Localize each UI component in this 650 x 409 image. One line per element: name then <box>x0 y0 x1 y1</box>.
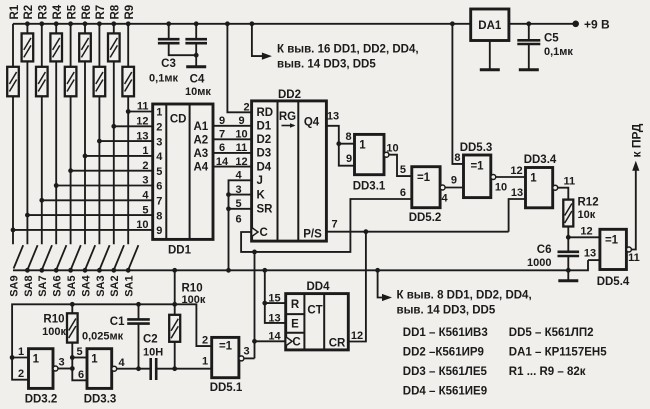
svg-text:DA1 – КР1157ЕН5: DA1 – КР1157ЕН5 <box>509 347 607 359</box>
svg-text:5: 5 <box>142 204 148 216</box>
junction: matrix row 9 <box>11 228 16 233</box>
ground below C5 <box>528 44 530 70</box>
wire: DD2 P/S (7) along y=231.7 <box>326 231 508 233</box>
svg-text:SA9: SA9 <box>8 275 20 296</box>
svg-text:Q4: Q4 <box>304 117 320 129</box>
IC DD1 (CD encoder) <box>153 104 213 239</box>
svg-text:1: 1 <box>18 346 24 358</box>
svg-text:3: 3 <box>243 346 249 358</box>
junction: rail / R3 <box>39 21 44 26</box>
svg-text:4: 4 <box>235 170 242 182</box>
switch SA2 <box>114 245 124 268</box>
junction: clock net / DD5.1 riser <box>252 250 257 255</box>
gate DD3.2 <box>29 349 54 389</box>
svg-text:DD2: DD2 <box>278 89 301 101</box>
wire: +9V top rail <box>13 23 471 25</box>
svg-text:10: 10 <box>136 219 148 231</box>
svg-text:5: 5 <box>400 164 406 176</box>
switch SA6 <box>57 245 67 268</box>
wire: DD3.3 out (4) to C2 <box>117 368 151 370</box>
svg-text:12: 12 <box>580 225 592 237</box>
svg-text:R3: R3 <box>38 5 50 20</box>
wire: matrix row to DD1 pin row 3 <box>99 140 152 142</box>
wire: matrix row to DD1 pin row 2 <box>114 125 153 127</box>
svg-text:5: 5 <box>235 198 241 210</box>
svg-text:D3: D3 <box>257 148 272 160</box>
junction: rail / annotation 1 <box>250 21 255 26</box>
svg-text:CD: CD <box>170 114 187 126</box>
wire: DD5.3 out (10) to DD3.4 pin 12 <box>496 176 526 178</box>
svg-text:R10: R10 <box>43 314 64 326</box>
junction: matrix row 5 <box>68 168 73 173</box>
svg-text:A2: A2 <box>193 134 208 146</box>
svg-text:0,025мк: 0,025мк <box>82 331 124 343</box>
junction: rail / RD drop <box>225 21 230 26</box>
svg-text:E: E <box>291 318 299 330</box>
capacitor C6 <box>558 237 580 270</box>
svg-text:DD5.1: DD5.1 <box>210 382 243 394</box>
junction: bus / SA1 <box>126 268 131 273</box>
wire: matrix row to DD1 pin row 5 <box>71 170 153 172</box>
junction: DD4 R/E tie <box>262 301 267 306</box>
svg-text:DD4: DD4 <box>306 281 330 293</box>
svg-text:7: 7 <box>156 196 162 208</box>
terminal +9 В <box>572 21 579 28</box>
junction: matrix row 3 <box>97 139 102 144</box>
capacitor C4 <box>185 24 207 55</box>
junction: J/K chain at SR <box>226 206 231 211</box>
DD5.2 output bubble <box>440 185 445 190</box>
svg-text:12: 12 <box>510 165 522 177</box>
junction: bus / SA3 <box>97 268 102 273</box>
svg-text:C1: C1 <box>110 316 125 328</box>
svg-text:R9: R9 <box>124 5 136 20</box>
svg-text:=1: =1 <box>219 340 233 352</box>
junction: rail / DD5.3 pin 8 drop <box>450 21 455 26</box>
junction: node A / R10 <box>70 302 75 307</box>
junction: bus / DD4 R,E riser <box>262 268 267 273</box>
svg-text:6: 6 <box>235 214 241 226</box>
svg-text:11: 11 <box>137 101 149 113</box>
wire: bus riser to DD5.4 pin 13 <box>588 259 600 261</box>
DD3.2 output bubble <box>53 366 58 371</box>
resistor R7 <box>94 24 106 245</box>
svg-text:C4: C4 <box>190 74 205 86</box>
gate DD3.4 <box>526 168 553 208</box>
switch SA5 <box>71 245 81 268</box>
wire: common bus from switches <box>13 260 588 270</box>
junction: bus / annotation 2 <box>375 268 380 273</box>
junction: rail / R9 <box>126 21 131 26</box>
svg-text:R5: R5 <box>66 4 78 19</box>
svg-text:R1 ... R9 – 82к: R1 ... R9 – 82к <box>509 366 586 378</box>
svg-text:9: 9 <box>238 115 244 127</box>
svg-text:DD5.4: DD5.4 <box>597 276 630 288</box>
junction: rail / R6 <box>83 21 88 26</box>
junction: node B at pin 5 <box>70 355 75 360</box>
junction: J/K chain at bus <box>226 268 231 273</box>
svg-text:0,1мк: 0,1мк <box>544 46 573 58</box>
svg-text:A4: A4 <box>193 162 208 174</box>
svg-text:3: 3 <box>235 184 241 196</box>
wire: P/S net riser to DD3.4 pin 13 <box>509 199 526 232</box>
svg-text:0,1мк: 0,1мк <box>149 73 178 85</box>
svg-text:DD5.3: DD5.3 <box>460 142 493 154</box>
junction: matrix row 7 <box>39 198 44 203</box>
svg-text:11: 11 <box>236 142 248 154</box>
junction: P/S / DD4 CR riser <box>364 229 369 234</box>
gate DD3.1 (NOR as inverter) <box>355 134 385 174</box>
wire: bus to annotation arrow (к выв. 8) <box>378 270 392 301</box>
junction: rail / R8 <box>111 21 116 26</box>
svg-text:1: 1 <box>202 356 208 368</box>
svg-text:C3: C3 <box>161 58 176 70</box>
junction: clock net / DD4 C <box>252 339 257 344</box>
svg-text:4: 4 <box>142 190 149 202</box>
svg-text:A3: A3 <box>193 148 208 160</box>
junction: DA1 out / C5 <box>526 21 531 26</box>
junction: bus / SA6 <box>54 268 59 273</box>
wire: DD1 A2 to DD2 D2 <box>213 138 252 140</box>
resistor R6 <box>79 24 91 245</box>
junction: C3/C4 common <box>194 53 199 58</box>
wire: matrix row to DD1 pin row 8 <box>27 214 152 216</box>
IC DD2 (RG register) <box>252 101 327 241</box>
DD3.4 output bubble <box>553 185 558 190</box>
wire: DD5.1 out (3) to clock net riser <box>244 357 255 359</box>
svg-text:SA6: SA6 <box>52 275 64 296</box>
svg-text:11: 11 <box>564 176 576 188</box>
wire: DD5.4 out (11) to к ПРД <box>631 161 639 250</box>
wire: DD5.1 out riser <box>254 252 256 359</box>
svg-text:RD: RD <box>257 107 274 119</box>
svg-text:6: 6 <box>156 181 162 193</box>
svg-text:D2: D2 <box>257 134 272 146</box>
svg-text:2: 2 <box>142 160 148 172</box>
switch SA7 <box>42 245 52 268</box>
svg-text:13: 13 <box>136 130 148 142</box>
wire: bus to oscillator node <box>174 270 176 304</box>
wire: matrix row to DD1 pin row 4 <box>85 155 153 157</box>
junction: R12 / C6 / DD5.4 pin 12 <box>566 235 571 240</box>
svg-text:DD4 – К561ИЕ9: DD4 – К561ИЕ9 <box>403 385 487 397</box>
svg-text:DD1 – К561ИВ3: DD1 – К561ИВ3 <box>403 327 488 339</box>
switch SA1 <box>129 245 139 268</box>
svg-text:DD3.1: DD3.1 <box>353 181 386 193</box>
svg-text:R: R <box>291 299 300 311</box>
svg-text:4: 4 <box>441 193 448 205</box>
svg-text:SR: SR <box>257 204 274 216</box>
svg-text:11: 11 <box>628 252 640 264</box>
capacitor C3 <box>158 24 196 55</box>
junction: bus / SA5 <box>68 268 73 273</box>
junction: J/K chain at K <box>226 192 231 197</box>
switch SA4 <box>86 245 96 268</box>
gate DD3.3 <box>87 349 112 389</box>
gate DD5.1 (XOR) <box>212 337 239 377</box>
svg-text:1: 1 <box>33 354 40 366</box>
svg-text:D1: D1 <box>257 121 272 133</box>
svg-text:C6: C6 <box>537 244 552 256</box>
svg-text:2: 2 <box>202 335 208 347</box>
svg-text:10Н: 10Н <box>143 347 163 359</box>
svg-text:6: 6 <box>400 187 406 199</box>
DD4 clock input triangle pin C <box>286 337 292 346</box>
svg-text:9: 9 <box>451 175 457 187</box>
svg-text:DD3.4: DD3.4 <box>524 154 557 166</box>
switch SA9 <box>14 245 24 268</box>
junction: node A / DD3.2 pin 1 <box>10 355 15 360</box>
resistor R2 <box>22 24 34 245</box>
wire: clock net to DD4 pin 14 <box>255 340 286 342</box>
svg-text:15: 15 <box>268 293 280 305</box>
svg-text:2: 2 <box>156 122 162 134</box>
svg-text:9: 9 <box>156 225 162 237</box>
svg-text:10: 10 <box>495 182 507 194</box>
wire: oscillator node A (top wire) <box>12 304 212 357</box>
resistor R12 <box>563 200 573 238</box>
junction: bus / SA4 <box>83 268 88 273</box>
svg-text:К выв. 16 DD1, DD2, DD4,: К выв. 16 DD1, DD2, DD4, <box>277 43 419 55</box>
svg-text:R7: R7 <box>95 5 107 20</box>
svg-text:R4: R4 <box>52 4 64 19</box>
junction: matrix row 1 <box>126 109 131 114</box>
junction: DD3.1 pins 8/9 tie <box>336 141 341 146</box>
junction: rail / R2 <box>25 21 30 26</box>
DD3.1 output bubble <box>384 152 389 157</box>
junction: C1 / DD3.3 out <box>136 366 141 371</box>
svg-text:1: 1 <box>156 107 162 119</box>
junction: rail / R5 <box>68 21 73 26</box>
svg-text:10: 10 <box>386 143 398 155</box>
svg-text:1: 1 <box>142 145 148 157</box>
capacitor C2 (series) <box>151 358 212 380</box>
resistor R8 <box>108 24 120 245</box>
wire: matrix row to DD1 pin row 9 <box>13 229 153 231</box>
wire: DD2 Q4 (pin 13) to DD3.1 pins 8,9 <box>326 126 354 166</box>
svg-text:J: J <box>257 175 263 187</box>
svg-text:3: 3 <box>156 136 162 148</box>
svg-text:R1: R1 <box>9 4 21 19</box>
svg-text:1: 1 <box>530 173 537 185</box>
svg-text:10: 10 <box>235 129 247 141</box>
svg-text:3: 3 <box>142 175 148 187</box>
resistor R9 <box>122 24 134 245</box>
ground below DA1 <box>489 41 491 70</box>
wire: DD3.2 out (3) to DD3.3 pins 5,6 <box>58 358 87 381</box>
svg-text:C: C <box>292 337 300 349</box>
svg-text:1000: 1000 <box>527 257 551 269</box>
svg-text:=1: =1 <box>605 234 619 246</box>
resistor R1 <box>7 24 19 245</box>
svg-text:14: 14 <box>216 156 229 168</box>
resistor R5 <box>65 24 77 245</box>
svg-text:1: 1 <box>91 354 98 366</box>
wire: rail from DA1 output to +9V terminal <box>509 23 576 25</box>
junction: rail / R7 <box>97 21 102 26</box>
wire: matrix row to DD1 pin row 6 <box>56 185 153 187</box>
wire: DD1 A4 to DD2 D4 <box>213 166 252 168</box>
svg-text:D4: D4 <box>257 161 272 173</box>
svg-text:12: 12 <box>351 330 363 342</box>
ground below bus at C6 <box>567 270 569 281</box>
svg-text:к ПРД: к ПРД <box>630 123 644 157</box>
svg-text:SA7: SA7 <box>37 275 49 296</box>
svg-text:14: 14 <box>268 331 281 343</box>
svg-text:выв. 14 DD3, DD5: выв. 14 DD3, DD5 <box>277 59 376 71</box>
svg-text:100к: 100к <box>42 326 66 338</box>
junction: matrix row 6 <box>54 183 59 188</box>
wire: DD4 CR (12) riser <box>348 232 366 342</box>
wire: matrix row to DD1 pin row 7 <box>42 199 153 201</box>
voltage regulator DA1 <box>471 9 509 41</box>
wire: DD3.2 pin 1 <box>12 357 28 359</box>
capacitor C5 <box>517 24 540 44</box>
svg-text:SA3: SA3 <box>95 275 107 296</box>
svg-text:8: 8 <box>156 210 162 222</box>
svg-text:RG: RG <box>279 111 296 123</box>
wire: DD3.2 pin 2 <box>12 358 28 380</box>
svg-text:=1: =1 <box>417 172 431 184</box>
resistor R10 (second, 100к) <box>169 304 180 368</box>
DD3.3 output bubble <box>112 366 117 371</box>
junction: C6 / bus / ground <box>566 268 571 273</box>
wire: DD5.2 out (4) to DD5.3 pin 9 <box>445 187 463 189</box>
svg-text:C2: C2 <box>143 334 158 346</box>
wire: DD3.1 out (10) to DD5.2 pin 5 <box>389 155 412 176</box>
junction: node A / R10-2 <box>172 302 177 307</box>
svg-text:13: 13 <box>511 187 523 199</box>
svg-text:CT: CT <box>307 305 322 317</box>
svg-text:R12: R12 <box>578 197 599 209</box>
ground below C4 <box>195 55 197 67</box>
wire: bus to DD4 pins 15,13 <box>265 270 286 323</box>
svg-text:SA5: SA5 <box>66 275 78 296</box>
junction: bus / SA8 <box>25 268 30 273</box>
junction: rail / R4 <box>54 21 59 26</box>
svg-text:DD3.3: DD3.3 <box>84 394 117 406</box>
junction: node A / C1 <box>136 302 141 307</box>
svg-text:R6: R6 <box>81 5 93 20</box>
svg-text:выв. 14 DD3, DD5: выв. 14 DD3, DD5 <box>397 304 496 316</box>
wire: DD1 A3 to DD2 D3 <box>213 152 252 154</box>
wire: clock net DD2 C - DD5.2 pin 6 <box>241 199 412 252</box>
wire: +9V rail to DD5.3 pin 8 <box>452 24 463 164</box>
DD5.4 output bubble <box>626 247 631 252</box>
svg-text:DD3 – К561ЛЕ5: DD3 – К561ЛЕ5 <box>403 366 488 378</box>
svg-text:DD1: DD1 <box>168 245 192 257</box>
svg-text:R10: R10 <box>182 283 203 295</box>
svg-text:SA1: SA1 <box>124 275 136 296</box>
svg-text:13: 13 <box>327 111 339 123</box>
svg-text:SA4: SA4 <box>80 275 92 297</box>
svg-text:10мк: 10мк <box>185 86 211 98</box>
svg-text:K: K <box>257 189 266 201</box>
svg-text:=1: =1 <box>470 161 484 173</box>
wire: DD1 A1 to DD2 D1 <box>213 125 252 127</box>
svg-text:3: 3 <box>58 357 64 369</box>
junction: rail / C4 <box>194 21 199 26</box>
svg-text:К выв. 8 DD1, DD2, DD4,: К выв. 8 DD1, DD2, DD4, <box>397 289 532 301</box>
svg-text:R8: R8 <box>110 4 122 19</box>
svg-text:12: 12 <box>235 156 247 168</box>
wire: matrix row to DD1 pin row 1 <box>128 111 153 113</box>
svg-text:DD5.2: DD5.2 <box>409 212 442 224</box>
svg-text:1: 1 <box>359 140 366 152</box>
junction: matrix row 2 <box>111 124 116 129</box>
resistor R4 <box>50 24 62 245</box>
svg-text:13: 13 <box>584 247 596 259</box>
resistor R10 (oscillator) <box>67 304 78 357</box>
svg-text:4: 4 <box>118 357 125 369</box>
DD2 clock input triangle pin C <box>252 227 258 236</box>
svg-text:R2: R2 <box>23 5 35 20</box>
svg-text:8: 8 <box>454 152 460 164</box>
svg-text:+9 В: +9 В <box>584 18 610 32</box>
svg-text:6: 6 <box>219 142 225 154</box>
junction: bus / SA2 <box>111 268 116 273</box>
DD5.1 output bubble <box>239 356 244 361</box>
svg-text:7: 7 <box>331 219 337 231</box>
svg-text:12: 12 <box>136 116 148 128</box>
junction: matrix row 8 <box>25 213 30 218</box>
wire: rail to annotation arrow (к выв. 16) <box>252 24 272 60</box>
wire: DD2 J/K/SR pins to bus <box>229 180 252 270</box>
svg-text:DD2 –К561ИР9: DD2 –К561ИР9 <box>403 347 484 359</box>
switch SA8 <box>28 245 38 268</box>
gate DD5.2 (XOR) <box>412 167 440 208</box>
junction: rail / C3 <box>166 21 171 26</box>
svg-text:100к: 100к <box>182 294 206 306</box>
svg-text:4: 4 <box>156 151 163 163</box>
svg-text:C5: C5 <box>544 33 559 45</box>
junction: bus / SA7 <box>39 268 44 273</box>
svg-text:8: 8 <box>345 131 351 143</box>
junction: node B at out 3 <box>70 366 75 371</box>
DD5.3 output bubble <box>491 175 496 180</box>
svg-text:SA8: SA8 <box>23 275 35 296</box>
svg-text:DD3.2: DD3.2 <box>25 394 58 406</box>
switch SA3 <box>100 245 110 268</box>
gate DD5.3 (XOR) <box>464 155 491 198</box>
svg-text:5: 5 <box>76 346 82 358</box>
svg-text:10к: 10к <box>578 209 596 221</box>
IC DD4 (CT counter) <box>286 294 349 350</box>
wire: node to DD5.4 pin 12 <box>568 236 600 238</box>
wire: +9V rail to DD2 pin 2 (RD) <box>227 24 251 113</box>
svg-text:CR: CR <box>329 337 346 349</box>
svg-text:13: 13 <box>268 312 280 324</box>
svg-text:A1: A1 <box>193 121 208 133</box>
resistor R3 <box>36 24 48 245</box>
wire: DD3.4 out (11) to R12 <box>558 188 569 200</box>
svg-text:P/S: P/S <box>303 229 322 241</box>
junction: matrix row 4 <box>83 154 88 159</box>
junction: R10-2 / C2 out <box>172 366 177 371</box>
svg-text:7: 7 <box>219 129 225 141</box>
svg-text:9: 9 <box>219 115 225 127</box>
svg-text:DD5 – К561ЛП2: DD5 – К561ЛП2 <box>509 327 594 339</box>
svg-text:2: 2 <box>243 102 249 114</box>
svg-text:SA2: SA2 <box>109 275 121 296</box>
capacitor C1 <box>127 304 150 368</box>
svg-text:C: C <box>260 227 268 239</box>
svg-text:6: 6 <box>78 369 84 381</box>
svg-text:2: 2 <box>18 368 24 380</box>
svg-text:5: 5 <box>156 166 162 178</box>
svg-text:9: 9 <box>346 153 352 165</box>
svg-text:DA1: DA1 <box>478 20 502 32</box>
